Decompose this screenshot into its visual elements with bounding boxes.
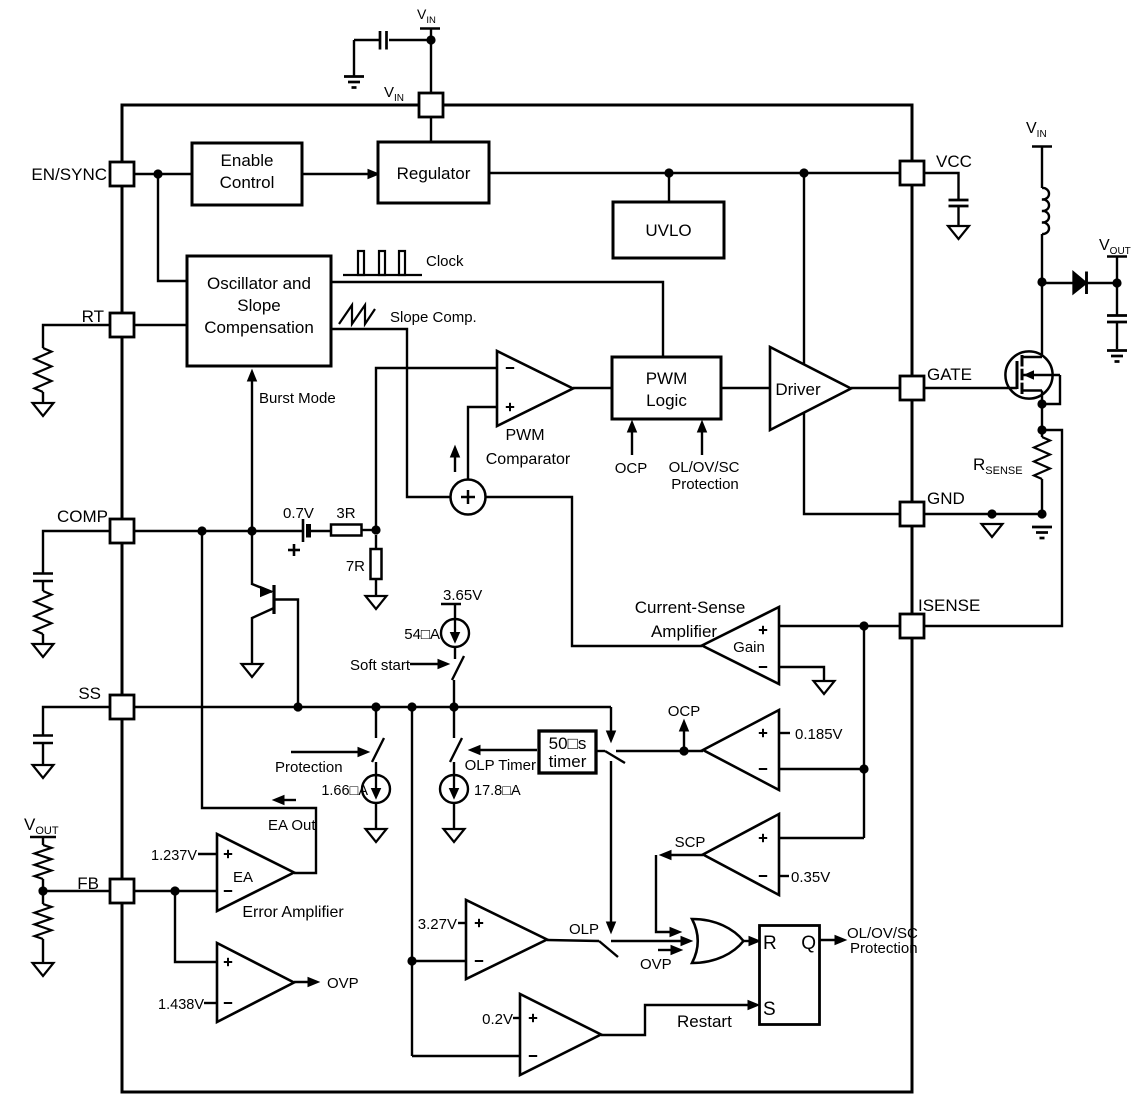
wire ISENSE branch vertical: [863, 626, 865, 838]
resistor R_FB2: [35, 904, 52, 939]
capacitor C_VCC: [949, 199, 969, 202]
node: sense tap: [1037, 425, 1046, 434]
wire divider upper: [42, 879, 44, 904]
ground (I1): [366, 829, 387, 842]
capacitor C_COMP: [33, 572, 53, 575]
node: burst/transistor junction on COMP: [247, 526, 256, 535]
wire EN/SYNC branch to Oscillator: [158, 174, 187, 281]
node: EA out junction on COMP: [197, 526, 206, 535]
svg-text:Soft start: Soft start: [350, 657, 411, 674]
svg-text:Control: Control: [220, 173, 275, 192]
current source I2 17.8uA: [440, 775, 468, 803]
transistor M1 body circle: [1005, 351, 1052, 398]
wire OVP input to OR gate: [658, 949, 674, 951]
minus (OVP comp): [224, 1002, 232, 1004]
wire clock output to PWM Logic: [331, 282, 663, 357]
svg-text:EA: EA: [233, 869, 253, 886]
node: soft-start tap: [449, 702, 458, 711]
arrow (summing current direction): [454, 452, 456, 472]
transistor M1 body stub with arrow: [1022, 374, 1060, 376]
svg-text:PWM: PWM: [646, 369, 688, 388]
resistor R_COMP: [35, 591, 52, 634]
pin COMP: [110, 519, 134, 543]
wire ISENSE to OCP comp inverting: [779, 768, 864, 770]
resistor 3R: [331, 525, 362, 536]
wire OLP switch to OR gate: [611, 940, 684, 942]
wire RT pin to Oscillator: [134, 324, 187, 326]
summing junction S1: [451, 480, 486, 515]
wire SCP output to OR gate: [668, 854, 703, 856]
wire 3R/7R node to PWM comparator inverting input: [376, 368, 497, 530]
node: gnd branch: [987, 509, 996, 518]
svg-text:Comparator: Comparator: [486, 451, 571, 468]
minus (OCP comp): [759, 768, 767, 770]
node: switch node: [1037, 277, 1046, 286]
svg-text:GND: GND: [927, 489, 965, 508]
arrow OCP (label arrow): [683, 729, 685, 751]
wire OLP comparator output: [547, 940, 599, 941]
ground (COMP): [33, 644, 54, 657]
plus (battery polarity): [288, 549, 300, 552]
node: FB divider tap: [38, 886, 47, 895]
wire sense tap to ISENSE pin: [924, 430, 1062, 626]
svg-text:0.35V: 0.35V: [791, 869, 830, 886]
transistor M1 gate bar: [1016, 361, 1019, 389]
wire diode to output: [1087, 282, 1118, 284]
wire Q1 base to SS line: [274, 600, 298, 708]
plus (OVP comp): [224, 961, 232, 963]
wire PWM comparator output to PWM Logic: [573, 387, 612, 389]
op-amp U_CSA (Current-Sense Amplifier): [702, 607, 779, 684]
arrow Burst Mode into oscillator: [248, 370, 257, 381]
ground (FB divider): [33, 963, 54, 976]
svg-text:Logic: Logic: [646, 391, 687, 410]
capacitor C_SS: [33, 734, 53, 737]
wire FB branch to OVP comparator: [175, 891, 217, 962]
wire CSA inverting input to ground: [779, 667, 824, 681]
svg-text:Slope: Slope: [237, 296, 280, 315]
svg-text:Amplifier: Amplifier: [651, 622, 717, 641]
wire CSA non-inverting input to ISENSE pin: [779, 625, 900, 627]
wire M1 body tie: [1042, 375, 1060, 404]
arrow Protection: [291, 751, 361, 753]
svg-text:1.438V: 1.438V: [158, 997, 204, 1013]
node: VIN/cap junction: [426, 35, 435, 44]
block: Enable Control: [192, 143, 302, 205]
wire summing node to PWM comparator non-inverting input: [468, 407, 497, 480]
wire FB tap to FB pin: [43, 890, 110, 892]
node: protection switch tap: [371, 702, 380, 711]
svg-text:UVLO: UVLO: [645, 221, 691, 240]
wire SS pin rail: [134, 706, 611, 708]
svg-text:3.65V: 3.65V: [443, 587, 482, 604]
wire COMP pin to battery: [134, 530, 303, 532]
resistor R_FB1: [35, 845, 52, 879]
minus (SCP comp): [759, 875, 767, 877]
pin FB: [110, 879, 134, 903]
ground (RT): [33, 403, 54, 416]
IC boundary rectangle: [122, 105, 912, 1092]
minus (CSA): [759, 666, 767, 668]
wire source to RSENSE: [1041, 404, 1043, 437]
svg-text:PWM: PWM: [505, 427, 544, 444]
wire R_T to ground: [42, 392, 44, 403]
wire R_FB2 to ground: [42, 939, 44, 963]
svg-text:Protection: Protection: [671, 476, 739, 493]
svg-text:SS: SS: [78, 684, 101, 703]
node: output node: [1112, 278, 1121, 287]
wire restart inverting input: [412, 1055, 520, 1057]
resistor R_T: [35, 348, 52, 392]
wire Q output: [820, 939, 839, 941]
ground (7R): [366, 596, 387, 609]
svg-text:ISENSE: ISENSE: [918, 596, 980, 615]
wire V_IN to VIN pin: [430, 29, 432, 93]
node: 3R/7R divider: [371, 525, 380, 534]
amp U_DRV (Driver): [770, 347, 851, 430]
svg-text:OLP Timer: OLP Timer: [465, 757, 536, 774]
svg-text:Slope Comp.: Slope Comp.: [390, 309, 477, 326]
minus (EA): [224, 890, 232, 892]
wire 3R to divider node: [362, 529, 377, 531]
wire Regulator to VCC pin: [489, 172, 900, 174]
svg-text:1.66□A: 1.66□A: [321, 783, 368, 799]
block: 50us timer: [539, 731, 596, 773]
op-amp U_OVP: [217, 943, 294, 1022]
wire driver supply: [803, 173, 805, 364]
svg-text:RT: RT: [82, 307, 104, 326]
arrow (EA out direction): [281, 799, 296, 801]
wire driver ground to GND pin: [804, 413, 900, 514]
svg-text:3R: 3R: [336, 505, 355, 522]
plus (CSA): [759, 629, 767, 631]
node: OLP comp inverting tap: [407, 956, 416, 965]
capacitor C_OUT: [1107, 314, 1127, 317]
svg-text:VCC: VCC: [936, 152, 972, 171]
wire timer switch to OCP comparator: [616, 750, 703, 752]
svg-text:OVP: OVP: [640, 956, 672, 973]
op-amp U_EA (Error Amplifier): [217, 834, 294, 911]
node: OLP comparator tap: [407, 702, 416, 711]
node: ISENSE branch: [859, 621, 868, 630]
transistor Q1 collector: [252, 608, 274, 618]
pin VIN: [419, 93, 443, 117]
plus (OLP comp): [475, 922, 483, 924]
wire OLP comp inverting input: [412, 960, 466, 962]
node: source node: [1037, 399, 1046, 408]
wire VCC pin to bypass cap: [924, 173, 959, 200]
wire SS rail to OLP timer switch: [610, 707, 612, 733]
inductor L1: [1042, 188, 1049, 234]
svg-text:SCP: SCP: [675, 834, 706, 851]
op-amp U_PWM (PWM Comparator): [497, 351, 573, 426]
svg-text:Protection: Protection: [275, 759, 343, 776]
svg-text:17.8□A: 17.8□A: [474, 783, 521, 799]
block: Regulator U_REG: [378, 142, 489, 203]
battery V1 0.7V: [302, 519, 305, 542]
pin RT: [110, 313, 134, 337]
ground (input cap): [344, 75, 364, 78]
arrow OLP Timer: [477, 749, 537, 751]
pin ISENSE: [900, 614, 924, 638]
plus (SCP comp): [759, 837, 767, 839]
wire EN/SYNC pin to Enable Control: [134, 173, 192, 175]
transistor M1 drain stub: [1022, 356, 1042, 358]
svg-text:50□s: 50□s: [549, 734, 587, 753]
arrow into Regulator: [368, 170, 379, 179]
wire Driver to GATE pin: [851, 387, 900, 389]
wire I1 to ground: [375, 803, 377, 829]
wire FB pin to error amp: [134, 890, 217, 892]
wire R_COMP to ground: [42, 634, 44, 644]
svg-text:OL/OV/SC: OL/OV/SC: [669, 459, 740, 476]
slope compensation sawtooth glyph: [339, 305, 375, 324]
wire to input bypass capacitor: [389, 39, 431, 41]
wire V_OUT label to output node: [1116, 256, 1118, 283]
node: EN/SYNC branch: [153, 169, 162, 178]
svg-text:3.27V: 3.27V: [418, 916, 457, 933]
node: UVLO tap: [664, 168, 673, 177]
wire Enable Control to Regulator: [302, 173, 371, 175]
svg-text:OCP: OCP: [615, 460, 648, 477]
ground (power, earth): [1032, 526, 1052, 529]
block: PWM Logic: [612, 357, 721, 419]
svg-text:OLP: OLP: [569, 921, 599, 938]
op-amp U_SCP: [703, 814, 779, 895]
wire ISENSE to SCP comp non-inverting: [779, 837, 864, 839]
wire SS external: [43, 707, 110, 735]
wire V_OUT to divider: [42, 837, 44, 845]
wire OVP output: [294, 981, 311, 983]
resistor R_SENSE: [1034, 437, 1050, 479]
svg-text:0.2V: 0.2V: [482, 1011, 513, 1028]
wire restart output to latch S: [601, 1005, 750, 1035]
svg-text:1.237V: 1.237V: [151, 848, 197, 864]
node: OCP/SCP tap: [859, 764, 868, 773]
wire PWM Logic to Driver: [721, 387, 770, 389]
svg-text:0.7V: 0.7V: [283, 505, 314, 522]
plus (OCP comp): [759, 732, 767, 734]
svg-text:Protection: Protection: [850, 940, 918, 957]
svg-text:54□A: 54□A: [404, 626, 440, 643]
wire 3.65V to current source: [454, 604, 456, 620]
svg-text:timer: timer: [549, 752, 587, 771]
minus (PWM comp): [506, 367, 514, 369]
reference 0.35V to SCP comp: [779, 875, 789, 877]
transistor Q1 base bar: [272, 585, 275, 614]
svg-text:Current-Sense: Current-Sense: [635, 598, 746, 617]
diode D1: [1074, 273, 1087, 294]
op-amp U_RST (restart): [520, 994, 601, 1075]
svg-text:GATE: GATE: [927, 365, 972, 384]
plus (PWM comp): [506, 406, 514, 408]
ground (I2): [444, 829, 465, 842]
svg-text:OVP: OVP: [327, 975, 359, 992]
svg-text:Burst Mode: Burst Mode: [259, 390, 336, 407]
pin GATE: [900, 376, 924, 400]
gate U_OR: [692, 919, 744, 963]
svg-text:Regulator: Regulator: [397, 164, 471, 183]
minus (OLP comp): [475, 960, 483, 962]
svg-text:S: S: [763, 999, 776, 1020]
arrow OCP into PWM Logic: [631, 429, 633, 455]
ground (output cap): [1107, 349, 1127, 352]
ground (GND pin, open): [982, 524, 1003, 537]
capacitor C_IN (input bypass): [385, 31, 388, 50]
wire output node to output cap: [1116, 283, 1118, 315]
wire GND pin to RSENSE bottom: [924, 513, 1042, 515]
node: RSENSE bottom: [1037, 509, 1046, 518]
wire COMP external: [43, 531, 110, 573]
wire UVLO tap: [668, 173, 670, 202]
wire inductor to drain: [1041, 234, 1043, 357]
pin SS: [110, 695, 134, 719]
svg-text:Compensation: Compensation: [204, 318, 314, 337]
plus (EA): [224, 853, 232, 855]
wire OR gate to latch R: [743, 940, 752, 942]
svg-text:Error Amplifier: Error Amplifier: [242, 904, 344, 921]
wire SS sense vertical: [411, 707, 413, 1056]
svg-text:7R: 7R: [346, 558, 365, 575]
wire I2 to ground: [453, 803, 455, 829]
transistor Q1 emitter: [251, 531, 253, 585]
svg-text:EN/SYNC: EN/SYNC: [31, 165, 107, 184]
node: driver supply tap: [799, 168, 808, 177]
svg-text:Driver: Driver: [775, 380, 821, 399]
ground (Q1 collector): [242, 664, 263, 677]
switch SW_PROT (protection): [375, 707, 377, 738]
pin EN/SYNC: [110, 162, 134, 186]
svg-text:COMP: COMP: [57, 507, 108, 526]
svg-text:Q: Q: [801, 933, 816, 954]
svg-text:Oscillator and: Oscillator and: [207, 274, 311, 293]
arrow OL/OV/SC into PWM Logic: [701, 429, 703, 455]
wire VIN pin to Regulator: [430, 117, 432, 142]
ground (CSA): [814, 681, 835, 694]
switch SW_T (timer output): [596, 750, 605, 752]
wire OLP timer vertical: [610, 761, 612, 925]
transistor M1 source stub: [1022, 389, 1042, 391]
transistor M1 channel bar: [1021, 355, 1024, 394]
svg-text:EA Out: EA Out: [268, 817, 316, 834]
wire EA output to COMP (EA Out): [202, 531, 316, 873]
svg-text:Enable: Enable: [221, 151, 274, 170]
node: FB branch: [170, 886, 179, 895]
switch SW_Q (OLP gate): [599, 941, 618, 957]
resistor 7R: [375, 535, 377, 549]
node: Q1 base tap: [293, 702, 302, 711]
block: Oscillator and Slope Compensation: [187, 256, 331, 366]
svg-text:Gain: Gain: [733, 639, 765, 656]
minus (restart comp): [529, 1055, 537, 1057]
wire RT external: [43, 325, 110, 348]
op-amp U_OLP: [466, 900, 547, 979]
svg-text:Clock: Clock: [426, 253, 464, 270]
svg-text:R: R: [763, 933, 777, 954]
block: RS latch U_L: [760, 926, 820, 1025]
node: OCP output tap: [679, 746, 688, 755]
current source I1 1.66uA: [362, 775, 390, 803]
current source I_SS 54uA: [441, 619, 469, 647]
plus (restart comp): [529, 1017, 537, 1019]
wire RSENSE to GND rail: [1041, 479, 1043, 514]
svg-text:0.185V: 0.185V: [795, 726, 843, 743]
reference 0.185V to OCP comp: [779, 732, 790, 734]
wire V_IN to inductor: [1041, 146, 1043, 188]
ground (SS): [33, 765, 54, 778]
switch SW_SS (soft start): [452, 656, 464, 680]
block: UVLO: [613, 202, 724, 258]
op-amp U_OCP: [703, 710, 779, 790]
wire switch node to diode: [1042, 282, 1073, 284]
wire GATE pin to M1 gate: [924, 387, 1017, 389]
svg-text:Restart: Restart: [677, 1012, 732, 1031]
switch SW_OLP (OLP timer): [453, 707, 455, 738]
clock waveform glyph: [358, 251, 364, 275]
ground (VCC cap): [948, 226, 969, 239]
arrow Soft start: [410, 663, 441, 665]
pin VCC: [900, 161, 924, 185]
wire summing node to current-sense amp: [486, 497, 703, 646]
pin GND: [900, 502, 924, 526]
wire slope comp output to summing node: [331, 329, 451, 497]
svg-text:OCP: OCP: [668, 703, 701, 720]
wire current source to soft-start switch: [454, 647, 456, 659]
